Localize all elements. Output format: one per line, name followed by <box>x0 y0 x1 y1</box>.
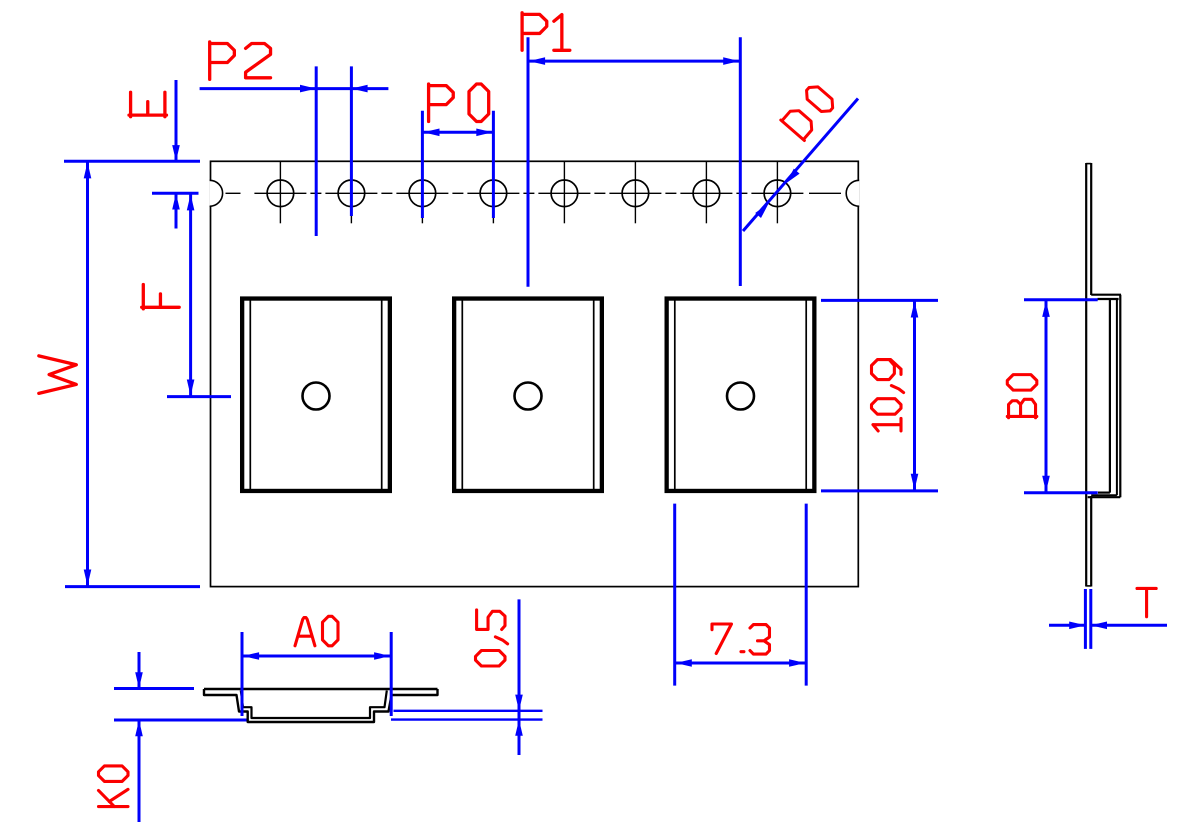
side view: tape back edge upper <box>1090 163 1092 295</box>
pocket 2 outline <box>454 299 602 491</box>
sprocket centerline <box>226 192 241 194</box>
dimension P0 line <box>422 131 493 134</box>
dimension P2 extension lines <box>315 66 318 236</box>
label 10,9 <box>873 418 901 431</box>
pocket 3 outline <box>667 299 815 491</box>
side view: pocket step wall <box>1109 299 1111 493</box>
tape outline (top view) <box>211 161 859 586</box>
pocket 1 outline <box>242 299 390 491</box>
label B0 <box>1007 399 1037 417</box>
side view: pocket outer bottom <box>1088 496 1121 498</box>
sprocket hole 2 <box>338 180 365 207</box>
dimension F tick <box>167 395 231 398</box>
label P1 <box>522 13 547 51</box>
pocket 2 inner wall lines <box>461 300 463 493</box>
dimension B0 extension ticks <box>1024 298 1098 301</box>
dimension W extension ticks <box>64 160 200 163</box>
dimension P1 extension lines <box>527 37 530 286</box>
dimension 0,5 extension ticks <box>394 710 543 712</box>
side view: pocket mid bottom <box>1091 494 1117 496</box>
sprocket hole 8 <box>764 180 791 207</box>
label D0 <box>781 106 817 141</box>
side view: pocket back inner wall <box>1116 299 1118 495</box>
sprocket hole 4 <box>480 180 507 207</box>
dimension F line <box>189 193 192 396</box>
sprocket hole 5 <box>551 180 578 207</box>
sprocket hole 3 <box>409 180 436 207</box>
label K0 <box>99 789 129 806</box>
dimension T line <box>1049 624 1085 627</box>
label P2 <box>210 42 235 80</box>
side view: pocket inner bottom <box>1098 492 1110 494</box>
side view: bottom cap <box>1086 585 1091 587</box>
dimension T extension lines <box>1084 589 1087 649</box>
label T <box>1137 588 1156 616</box>
dimension 10,9 line <box>913 300 916 491</box>
dimension D0 leader line <box>743 99 858 232</box>
side view: tape back edge lower <box>1090 496 1092 587</box>
right edge half sprocket hole <box>845 180 858 206</box>
sprocket hole 6 <box>622 180 649 207</box>
section view: tape top surface <box>204 688 438 691</box>
left edge half sprocket hole <box>211 180 224 206</box>
dimension K0 line <box>138 652 141 689</box>
dimension P1 line <box>528 60 740 63</box>
dimension E line <box>175 80 178 161</box>
side view: pocket outer top <box>1091 294 1121 296</box>
pocket 3 inner wall lines <box>674 300 676 493</box>
pocket 2 center hole <box>515 383 542 410</box>
side view: tape front edge <box>1085 163 1087 587</box>
dimension E tick <box>152 192 199 195</box>
dimension 0,5 line <box>518 599 521 755</box>
label F <box>142 285 180 309</box>
dimension A0 line <box>242 655 391 658</box>
dimension 10,9 extension ticks <box>821 299 938 302</box>
side view: pocket inner top <box>1098 298 1119 300</box>
dimension 7.3 line <box>675 662 807 665</box>
dimension 7.3 extension lines <box>673 504 676 686</box>
dimension A0 extension lines <box>241 632 244 716</box>
pocket 3 center hole <box>727 383 754 410</box>
side view: pocket back outer wall <box>1119 295 1121 498</box>
label P0 <box>429 84 454 122</box>
section view: pocket inner profile <box>241 691 387 719</box>
label A0 <box>295 618 315 646</box>
dimension P0 extension lines <box>421 111 424 218</box>
label 7.3 <box>712 624 731 654</box>
section view: pocket outer profile <box>204 689 438 722</box>
label 0,5 <box>476 651 506 666</box>
dimension B0 line <box>1045 300 1048 493</box>
label W <box>39 356 77 394</box>
dimension K0 extension ticks <box>114 687 194 690</box>
dimension W line <box>86 161 89 586</box>
sprocket hole 1 <box>267 180 294 207</box>
pocket 1 inner wall lines <box>249 300 251 493</box>
dimension P2 line <box>200 87 389 90</box>
sprocket hole 7 <box>693 180 720 207</box>
side view: top cap <box>1086 163 1091 165</box>
pocket 1 center hole <box>303 383 330 410</box>
label E <box>129 92 167 116</box>
